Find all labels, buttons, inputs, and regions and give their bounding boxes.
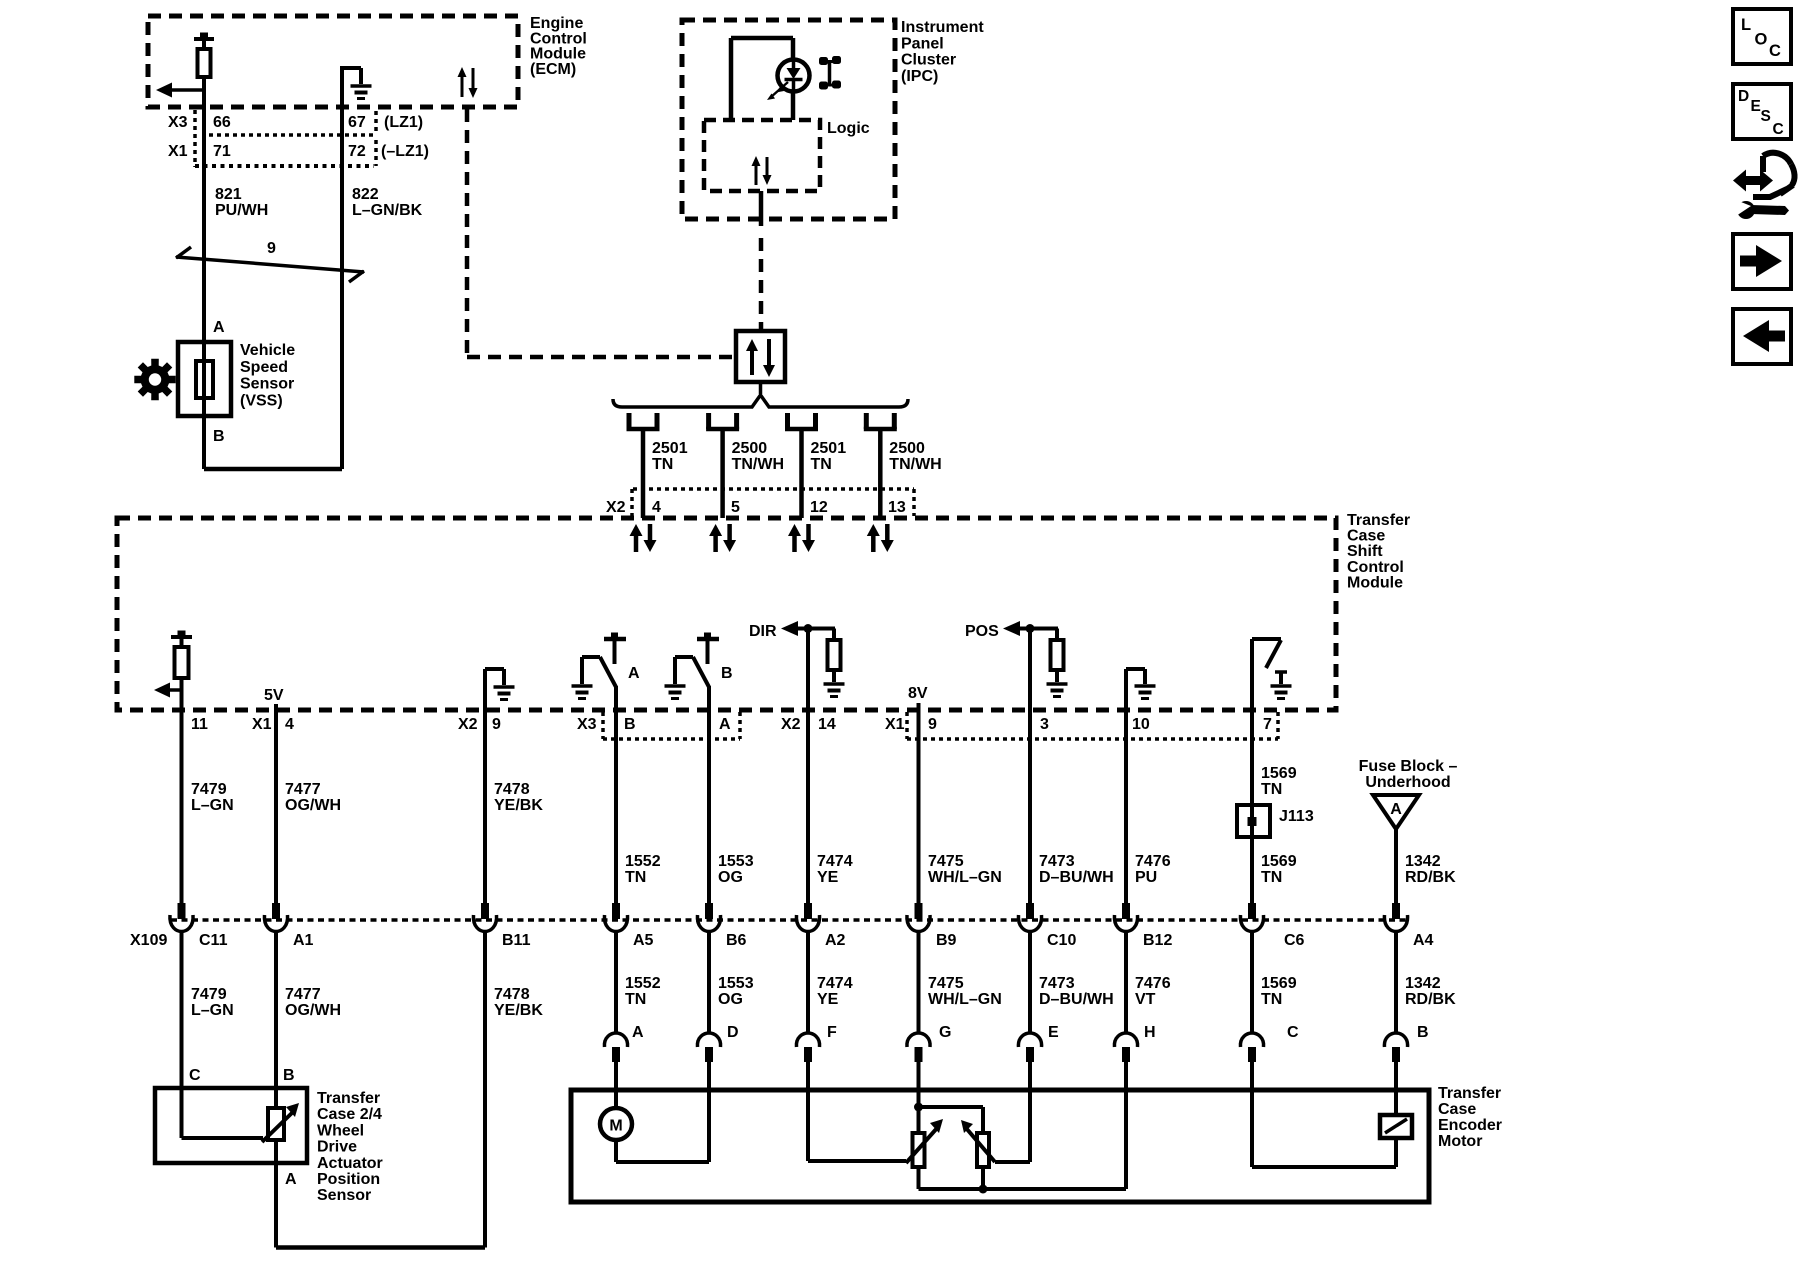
svg-text:7474: 7474 [817,853,853,870]
svg-text:7479: 7479 [191,781,227,798]
svg-text:1342: 1342 [1405,975,1441,992]
svg-text:PU: PU [1135,869,1157,886]
svg-text:H: H [1144,1024,1156,1041]
svg-text:7474: 7474 [817,975,853,992]
svg-text:Shift: Shift [1347,543,1383,560]
svg-text:8V: 8V [908,685,928,702]
svg-text:Sensor: Sensor [317,1187,371,1204]
svg-text:X2: X2 [781,716,801,733]
svg-text:B: B [1417,1024,1429,1041]
svg-text:7476: 7476 [1135,975,1171,992]
svg-text:12: 12 [810,499,828,516]
svg-text:TN/WH: TN/WH [732,456,784,473]
svg-text:2501: 2501 [652,440,688,457]
svg-text:4: 4 [285,716,294,733]
svg-text:X109: X109 [130,932,167,949]
svg-text:OG: OG [718,869,743,886]
svg-text:Speed: Speed [240,359,288,376]
svg-text:YE/BK: YE/BK [494,1002,543,1019]
svg-text:71: 71 [213,143,231,160]
svg-text:A1: A1 [293,932,314,949]
svg-text:D–BU/WH: D–BU/WH [1039,869,1114,886]
svg-text:C: C [1773,121,1784,138]
svg-text:C11: C11 [199,932,228,949]
svg-text:L: L [1741,16,1751,34]
svg-text:Panel: Panel [901,35,944,52]
svg-text:J113: J113 [1279,808,1314,825]
svg-text:(IPC): (IPC) [901,68,938,85]
svg-text:7475: 7475 [928,975,964,992]
svg-text:WH/L–GN: WH/L–GN [928,869,1002,886]
svg-text:A: A [213,319,225,336]
svg-text:Wheel: Wheel [317,1122,364,1139]
svg-text:C: C [1287,1024,1299,1041]
svg-text:A2: A2 [825,932,846,949]
svg-text:1569: 1569 [1261,765,1297,782]
svg-text:YE: YE [817,869,839,886]
svg-text:X1: X1 [885,716,905,733]
svg-text:Sensor: Sensor [240,376,294,393]
svg-text:C: C [1769,42,1781,60]
svg-text:7: 7 [1263,716,1272,733]
svg-text:Underhood: Underhood [1365,774,1450,791]
svg-text:1552: 1552 [625,853,661,870]
svg-text:D: D [727,1024,739,1041]
svg-text:Transfer: Transfer [1347,512,1410,529]
svg-text:PU/WH: PU/WH [215,202,268,219]
svg-text:Control: Control [1347,559,1404,576]
svg-text:OG/WH: OG/WH [285,1002,341,1019]
svg-text:1553: 1553 [718,975,754,992]
svg-text:C10: C10 [1047,932,1076,949]
svg-text:Cluster: Cluster [901,52,956,69]
svg-text:9: 9 [267,240,276,257]
svg-text:OG: OG [718,991,743,1008]
svg-text:L–GN: L–GN [191,797,234,814]
svg-text:X2: X2 [458,716,478,733]
svg-text:Transfer: Transfer [1438,1085,1501,1102]
svg-text:L–GN/BK: L–GN/BK [352,202,423,219]
svg-text:B11: B11 [502,932,531,949]
svg-text:RD/BK: RD/BK [1405,869,1456,886]
svg-text:B: B [721,665,733,682]
svg-text:1552: 1552 [625,975,661,992]
svg-text:A: A [719,716,731,733]
svg-text:E: E [1751,98,1761,115]
svg-text:7478: 7478 [494,781,530,798]
svg-text:O: O [1755,31,1768,49]
svg-text:TN: TN [1261,869,1282,886]
svg-text:Drive: Drive [317,1139,357,1156]
svg-text:3: 3 [1040,716,1049,733]
svg-text:C: C [189,1067,201,1084]
svg-text:9: 9 [928,716,937,733]
svg-text:RD/BK: RD/BK [1405,991,1456,1008]
svg-text:B12: B12 [1143,932,1172,949]
svg-text:7473: 7473 [1039,975,1075,992]
svg-text:13: 13 [888,499,906,516]
svg-text:72: 72 [348,143,366,160]
svg-text:YE/BK: YE/BK [494,797,543,814]
svg-text:67: 67 [348,114,366,131]
svg-text:Encoder: Encoder [1438,1117,1502,1134]
svg-text:(–LZ1): (–LZ1) [381,143,429,160]
svg-text:Instrument: Instrument [901,19,984,36]
svg-text:7477: 7477 [285,781,321,798]
svg-text:YE: YE [817,991,839,1008]
svg-text:TN/WH: TN/WH [889,456,941,473]
svg-text:7479: 7479 [191,986,227,1003]
svg-text:5V: 5V [264,687,284,704]
svg-text:1342: 1342 [1405,853,1441,870]
svg-text:Actuator: Actuator [317,1155,383,1172]
svg-text:DIR: DIR [749,623,777,640]
svg-text:11: 11 [191,716,208,733]
svg-text:TN: TN [625,869,646,886]
svg-text:X2: X2 [606,499,626,516]
svg-text:F: F [827,1024,837,1041]
svg-text:X1: X1 [252,716,272,733]
svg-text:A: A [632,1024,644,1041]
svg-text:(VSS): (VSS) [240,392,283,409]
svg-text:A: A [285,1171,297,1188]
svg-text:5: 5 [731,499,740,516]
svg-text:821: 821 [215,186,242,203]
svg-text:2500: 2500 [889,440,925,457]
svg-text:A4: A4 [1413,932,1434,949]
svg-text:X3: X3 [577,716,597,733]
svg-text:Position: Position [317,1171,380,1188]
svg-text:Case 2/4: Case 2/4 [317,1106,382,1123]
svg-text:A: A [628,665,640,682]
svg-text:Case: Case [1347,528,1385,545]
svg-text:M: M [609,1118,622,1135]
svg-text:C6: C6 [1284,932,1305,949]
svg-text:TN: TN [1261,781,1282,798]
svg-text:OG/WH: OG/WH [285,797,341,814]
svg-text:B: B [283,1067,295,1084]
svg-text:Motor: Motor [1438,1133,1482,1150]
svg-text:POS: POS [965,623,999,640]
svg-text:9: 9 [492,716,501,733]
svg-text:TN: TN [811,456,832,473]
svg-text:B: B [213,428,225,445]
svg-text:7477: 7477 [285,986,321,1003]
svg-text:D–BU/WH: D–BU/WH [1039,991,1114,1008]
svg-text:G: G [939,1024,951,1041]
svg-text:S: S [1761,108,1771,125]
svg-text:2501: 2501 [811,440,847,457]
svg-text:TN: TN [625,991,646,1008]
svg-text:B6: B6 [726,932,747,949]
svg-text:14: 14 [818,716,836,733]
svg-text:TN: TN [1261,991,1282,1008]
svg-text:7473: 7473 [1039,853,1075,870]
svg-text:66: 66 [213,114,231,131]
svg-text:A: A [1390,801,1402,818]
svg-text:2500: 2500 [732,440,768,457]
svg-text:1553: 1553 [718,853,754,870]
svg-text:Fuse Block –: Fuse Block – [1359,758,1458,775]
svg-text:(LZ1): (LZ1) [384,114,423,131]
svg-text:Case: Case [1438,1101,1476,1118]
svg-text:E: E [1048,1024,1059,1041]
svg-text:X3: X3 [168,114,188,131]
svg-text:D: D [1738,88,1749,105]
svg-text:VT: VT [1135,991,1156,1008]
svg-text:7476: 7476 [1135,853,1171,870]
svg-text:B: B [624,716,636,733]
svg-text:4: 4 [652,499,661,516]
svg-text:TN: TN [652,456,673,473]
svg-text:Vehicle: Vehicle [240,342,295,359]
svg-text:1569: 1569 [1261,853,1297,870]
svg-text:Transfer: Transfer [317,1090,380,1107]
svg-text:B9: B9 [936,932,957,949]
svg-text:(ECM): (ECM) [530,61,576,78]
svg-text:WH/L–GN: WH/L–GN [928,991,1002,1008]
svg-text:7478: 7478 [494,986,530,1003]
svg-text:Module: Module [1347,574,1403,591]
svg-text:822: 822 [352,186,379,203]
svg-text:X1: X1 [168,143,188,160]
svg-text:Logic: Logic [827,120,870,137]
svg-text:A5: A5 [633,932,654,949]
svg-text:L–GN: L–GN [191,1002,234,1019]
svg-text:1569: 1569 [1261,975,1297,992]
svg-text:10: 10 [1132,716,1150,733]
svg-text:7475: 7475 [928,853,964,870]
